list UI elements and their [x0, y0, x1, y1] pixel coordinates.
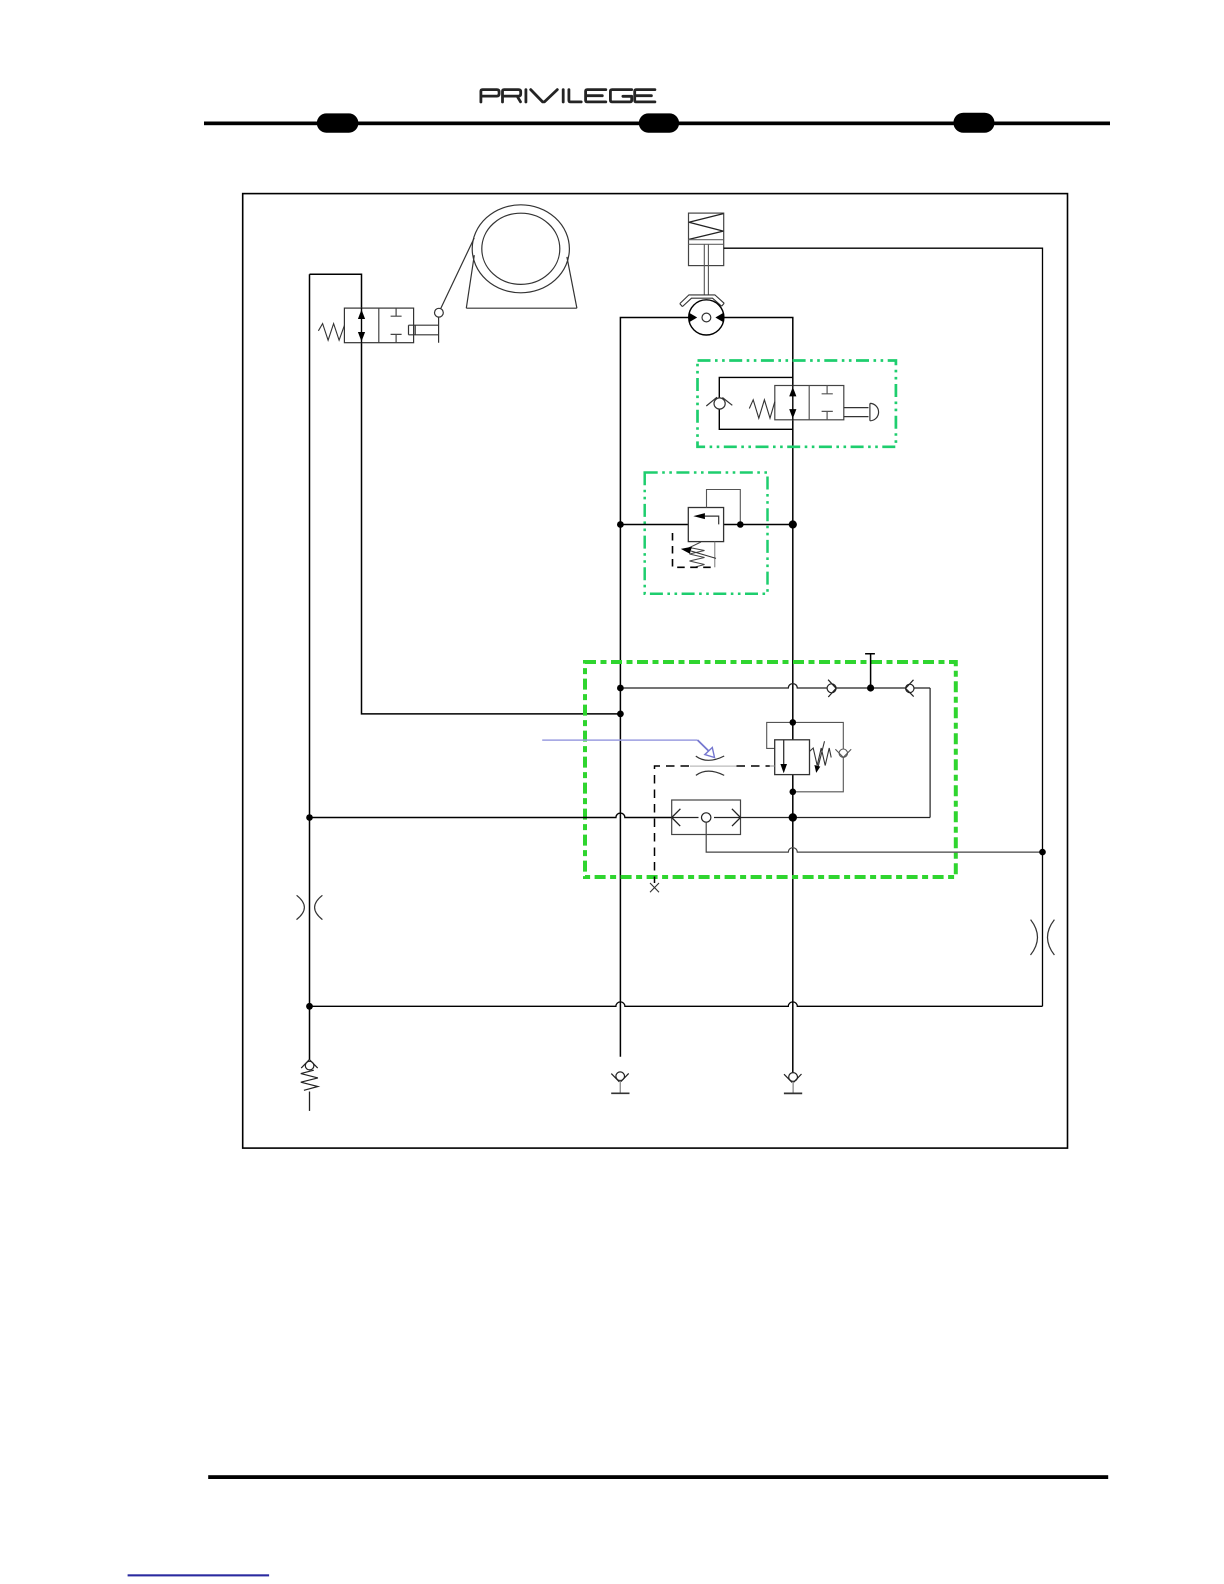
shuttle to loop wire — [741, 817, 931, 819]
PRIVILEGE logo — [481, 90, 655, 102]
right line restrictor — [1031, 920, 1055, 955]
letter G — [610, 90, 631, 102]
relief pilot dashed line — [673, 533, 715, 567]
valve V2 flow line with arrows — [792, 386, 794, 420]
diagram frame — [243, 194, 1068, 1149]
green enclosure 3 (autopilot pump unit) — [585, 662, 956, 877]
closed end X — [650, 883, 659, 892]
relief wire left — [620, 524, 688, 526]
shuttle through line — [672, 817, 741, 819]
pilot valve V4 loop — [767, 722, 844, 791]
bypass valve V2 body — [775, 386, 844, 420]
valve V1 blocked port bottom — [391, 334, 402, 342]
letter R — [503, 90, 521, 102]
valve V2 spring — [749, 400, 775, 418]
green enclosure 2 (relief valve unit) — [645, 473, 768, 594]
letter I — [525, 90, 528, 102]
relief adjust arrow — [691, 551, 716, 558]
check valve C — [839, 749, 847, 757]
header pill 1 — [317, 113, 359, 132]
relief spring — [690, 542, 705, 567]
valve V4 spring — [810, 748, 832, 766]
valve V2 blocked port bottom — [822, 411, 833, 419]
valve V2 blocked port top — [822, 386, 833, 394]
green enclosure 1 (helm bypass unit) — [698, 361, 896, 447]
check valve A — [827, 684, 836, 693]
bypass loop wires — [719, 377, 793, 429]
pump body — [689, 300, 724, 335]
relief valve body — [688, 508, 723, 542]
bottom-left relief check ball — [305, 1061, 314, 1070]
inner loop right side — [929, 688, 931, 818]
shuttle valve body — [672, 800, 741, 835]
pump left arrow — [689, 313, 698, 323]
pilot sense dashed line — [655, 766, 690, 883]
shuttle outlet wire — [706, 822, 1042, 852]
helm pump cylinder body — [689, 213, 724, 266]
shuttle right chevron — [732, 809, 741, 826]
valve V4 adjust arrow — [818, 741, 825, 768]
letter V — [531, 90, 558, 102]
valve V1 return spring — [318, 324, 344, 341]
steering wheel inner rim — [482, 213, 560, 284]
steering pedestal — [466, 255, 577, 308]
valve V1 flow line with arrows — [361, 308, 363, 343]
check valve B — [906, 684, 914, 692]
autopilot note line (blue) — [542, 739, 697, 741]
orifice throat passage — [690, 765, 737, 767]
valve V1 blocked port top — [391, 308, 402, 316]
orifice restrictor — [696, 756, 724, 775]
header rule — [204, 122, 1110, 126]
right drain check — [789, 1073, 798, 1082]
bottom-left relief spring — [301, 1070, 318, 1090]
plugged port stub — [865, 654, 875, 688]
footer rule — [208, 1475, 1108, 1479]
left line restrictor — [297, 895, 323, 919]
letter E — [635, 90, 655, 102]
valve V4 flow line — [783, 740, 785, 772]
footer link underline — [128, 1574, 270, 1576]
helm cylinder spring — [689, 214, 724, 240]
relief spring housing — [714, 542, 716, 568]
steering link lever — [441, 238, 475, 309]
letter P — [481, 90, 499, 102]
shuttle left chevron — [672, 809, 681, 826]
pump shaft circle — [702, 313, 711, 322]
wire pump right port — [724, 318, 793, 386]
letter L — [569, 90, 581, 102]
left drain tail and port — [619, 1081, 621, 1093]
valve V1 actuator rod — [409, 317, 439, 343]
wire bottom return run — [310, 1002, 1043, 1006]
right drain tail and port — [792, 1081, 794, 1092]
steering wheel outer rim — [472, 205, 569, 293]
helm cylinder piston — [689, 240, 724, 245]
wire left long line — [309, 274, 311, 1059]
box3 top wire — [620, 684, 930, 688]
pump drive shoe — [680, 295, 724, 307]
helm piston rod — [704, 244, 708, 295]
junction dots — [617, 521, 624, 528]
wire valve V1 bottom run — [362, 343, 621, 714]
wire pump left port — [620, 318, 688, 1057]
letter I — [562, 90, 565, 102]
header pill 3 — [953, 113, 994, 133]
wire into box3 from left valve run — [310, 813, 672, 817]
wire helm cylinder port to right line — [724, 248, 1043, 1006]
left drain check — [616, 1072, 625, 1081]
valve V2 divider — [808, 386, 810, 420]
valve V1 divider — [378, 308, 380, 343]
header pill 2 — [639, 113, 679, 132]
wire centre column lower — [792, 775, 794, 1073]
bottom-left relief seat — [301, 1060, 318, 1069]
pilot valve V4 body — [775, 740, 810, 775]
shuttle ball — [702, 813, 711, 822]
wire valve V1 top to left column — [310, 274, 362, 308]
valve V2 push button — [844, 408, 869, 417]
bypass check valve — [714, 398, 725, 409]
bottom-left relief tail — [309, 1092, 311, 1111]
relief wire right — [724, 524, 793, 526]
pump right arrow — [715, 313, 724, 323]
relief valve flow arrow — [705, 516, 719, 524]
valve V1 body — [344, 308, 413, 343]
wire centre column upper — [792, 420, 794, 740]
relief pilot loop — [707, 490, 741, 525]
lever ball joint — [435, 308, 444, 317]
letter E — [586, 90, 606, 102]
